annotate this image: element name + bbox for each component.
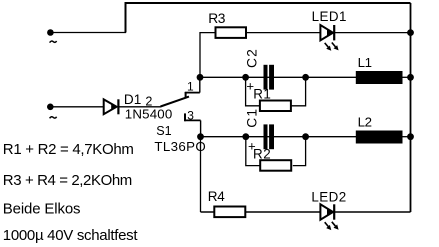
- svg-text:R4: R4: [208, 189, 225, 204]
- wire L1 to right rail: [403, 76, 411, 78]
- node branch 1 left: [197, 74, 204, 81]
- svg-text:1: 1: [187, 79, 194, 93]
- svg-text:LED1: LED1: [312, 9, 347, 24]
- wire top rail: [126, 3, 411, 33]
- wire right rail: [410, 3, 412, 212]
- wire branch 1: [200, 76, 356, 78]
- inductor L2: [356, 131, 403, 144]
- svg-text:C2: C2: [245, 48, 260, 68]
- wire R1 parallel loop: [246, 77, 306, 106]
- svg-text:S1: S1: [156, 124, 171, 138]
- svg-text:TL36PO: TL36PO: [154, 139, 206, 154]
- resistor R1: [260, 101, 291, 112]
- node LED1 line / right rail junction: [407, 29, 414, 36]
- diode D1: [104, 99, 119, 114]
- label ~ input 1: [50, 41, 57, 43]
- resistor R2: [260, 160, 291, 171]
- svg-text:1000µ 40V schaltfest: 1000µ 40V schaltfest: [3, 227, 139, 244]
- svg-text:LED2: LED2: [311, 190, 346, 205]
- svg-text:L1: L1: [358, 55, 372, 70]
- wire input 2 to D1 anode: [50, 106, 103, 108]
- switch S1 contact 3: [184, 113, 186, 121]
- node input terminal 2: [47, 104, 54, 111]
- capacitor C1: [264, 124, 275, 149]
- LED D3 symbol LED2: [320, 204, 338, 230]
- wire branch 2: [201, 136, 357, 138]
- resistor R4: [214, 207, 245, 218]
- node L2 / right rail junction: [407, 133, 414, 140]
- LED D2 symbol LED1: [320, 25, 338, 51]
- svg-text:3: 3: [187, 108, 194, 122]
- svg-text:1N5400: 1N5400: [125, 106, 173, 121]
- node R1 left tap: [242, 74, 249, 81]
- wire L2 to right rail: [403, 136, 411, 138]
- capacitor C2: [264, 65, 275, 90]
- node R2 right tap: [302, 133, 309, 140]
- resistor R3: [216, 27, 247, 38]
- wire contact3 node down to bottom rail: [200, 137, 202, 212]
- svg-text:R1 + R2 = 4,7KOhm: R1 + R2 = 4,7KOhm: [3, 141, 134, 158]
- node input terminal 1: [47, 29, 54, 36]
- node R1 right tap: [302, 74, 309, 81]
- wire R2 parallel loop: [246, 137, 306, 166]
- node L1 / right rail junction: [407, 74, 414, 81]
- switch S1 lever: [161, 97, 190, 107]
- svg-text:D1: D1: [124, 92, 141, 107]
- svg-text:R3 + R4 = 2,2KOhm: R3 + R4 = 2,2KOhm: [3, 172, 132, 189]
- wire bottom rail: [201, 211, 411, 213]
- svg-text:Beide Elkos: Beide Elkos: [3, 200, 81, 217]
- label ~ input 2: [50, 117, 57, 119]
- wire R3/LED1 line left: [200, 33, 320, 78]
- wire input 1 horizontal: [50, 32, 126, 34]
- svg-text:R2: R2: [253, 146, 271, 161]
- node R2 left tap: [242, 133, 249, 140]
- svg-text:C1: C1: [245, 108, 260, 128]
- inductor L1: [356, 71, 403, 84]
- svg-text:R3: R3: [208, 11, 226, 26]
- node branch 2 left: [197, 133, 204, 140]
- svg-text:L2: L2: [358, 114, 372, 129]
- wire LED1 to right rail: [335, 32, 411, 34]
- svg-text:R1: R1: [253, 86, 271, 101]
- switch S1 contact 1: [185, 92, 187, 97]
- wire D1 cathode to switch pole: [119, 106, 161, 108]
